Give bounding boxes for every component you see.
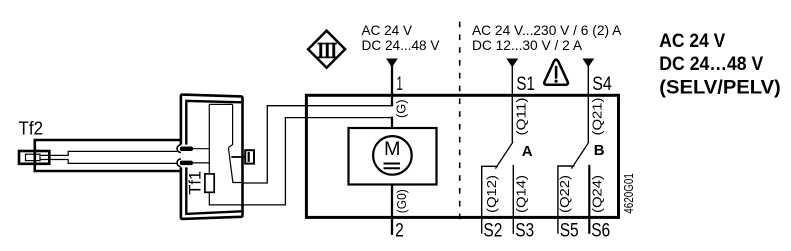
motor box: [349, 128, 437, 185]
capillary line lower: [40, 160, 177, 164]
svg-text:4620G01: 4620G01: [621, 173, 636, 214]
svg-text:S4: S4: [592, 74, 612, 95]
svg-text:S5: S5: [560, 221, 579, 242]
feed triangle terminal 1: [386, 59, 398, 68]
svg-text:1: 1: [396, 74, 403, 95]
actuator housing inner wall: [186, 101, 241, 214]
svg-text:M: M: [384, 138, 401, 160]
svg-text:S2: S2: [483, 221, 502, 242]
motor circle: [373, 136, 412, 175]
terminal G0 lead: [391, 185, 393, 235]
svg-text:S3: S3: [515, 221, 534, 242]
terminal S1 lead: [511, 64, 513, 142]
svg-text:2: 2: [395, 221, 404, 242]
svg-text:(Q14): (Q14): [514, 175, 528, 213]
terminal Q22 line and contact: [558, 166, 575, 234]
feed triangle S4: [582, 59, 594, 68]
svg-text:Tf1: Tf1: [187, 171, 205, 195]
wire 2 housing to motor: [243, 118, 393, 205]
sensor Tf2 plug body: [19, 151, 49, 164]
main actuator box: [306, 95, 618, 217]
svg-text:S1: S1: [516, 74, 535, 95]
wire resistor bottom to housing exit: [209, 192, 242, 205]
capillary terminal bar upper: [180, 147, 193, 152]
svg-text:(Q21): (Q21): [591, 98, 605, 136]
svg-text:AC 24 V...230 V / 6 (2) A: AC 24 V...230 V / 6 (2) A: [472, 23, 622, 38]
svg-text:DC 12...30 V / 2 A: DC 12...30 V / 2 A: [472, 38, 583, 53]
wire 1 housing to terminal G: [243, 106, 393, 183]
svg-text:(Q11): (Q11): [515, 98, 529, 136]
wire from lower terminal bar to Tf1 node: [192, 162, 209, 164]
setting knob bar: [248, 152, 250, 162]
capillary tube outer shell: [35, 140, 181, 171]
svg-text:(Q22): (Q22): [558, 175, 572, 213]
setting knob box: [245, 150, 254, 163]
svg-text:DC 24...48 V: DC 24...48 V: [362, 38, 441, 53]
switch A blade: [495, 142, 513, 169]
terminal Q24 line: [588, 165, 590, 234]
svg-text:DC 24…48 V: DC 24…48 V: [659, 54, 763, 75]
svg-text:S6: S6: [591, 221, 610, 242]
dashed separator line: [459, 22, 461, 224]
svg-text:AC 24 V: AC 24 V: [362, 23, 413, 38]
sensor Tf2 inner element: [26, 154, 41, 160]
resistor Tf1: [205, 174, 214, 192]
wire G node to motor top: [391, 117, 393, 129]
capillary entry arc upper: [177, 145, 181, 153]
terminal Q12 line and contact: [482, 166, 498, 234]
wire from upper terminal bar to Tf1 node: [192, 148, 209, 150]
svg-text:AC 24 V: AC 24 V: [659, 31, 725, 52]
svg-text:(G0): (G0): [395, 189, 409, 213]
class III insulation diamond: [308, 31, 345, 68]
svg-text:B: B: [594, 142, 605, 159]
setting knob link: [231, 156, 246, 158]
motor DC bars: [384, 164, 401, 169]
switch Tf blade: [228, 148, 242, 183]
feed triangle S1: [506, 59, 518, 68]
terminal S4 lead: [587, 64, 589, 142]
warning triangle: [544, 60, 568, 85]
svg-text:(G): (G): [395, 100, 409, 119]
switch B blade: [571, 142, 589, 169]
capillary entry arc lower: [177, 159, 181, 167]
svg-text:(SELV/PELV): (SELV/PELV): [659, 78, 781, 99]
svg-text:(Q24): (Q24): [591, 175, 605, 213]
svg-text:Tf2: Tf2: [19, 118, 44, 138]
switch Tf contact: [228, 104, 232, 147]
class III numeral: [318, 43, 337, 59]
actuator housing outer wall: [181, 95, 243, 219]
wire node to resistor and switch loop: [209, 104, 232, 173]
svg-text:A: A: [522, 143, 533, 160]
terminal 1 lead: [391, 64, 393, 106]
capillary terminal bar lower: [180, 161, 193, 166]
terminal Q14 line: [512, 165, 514, 234]
capillary line upper: [40, 151, 177, 155]
svg-text:(Q12): (Q12): [485, 175, 499, 213]
warning exclamation: [555, 67, 558, 78]
